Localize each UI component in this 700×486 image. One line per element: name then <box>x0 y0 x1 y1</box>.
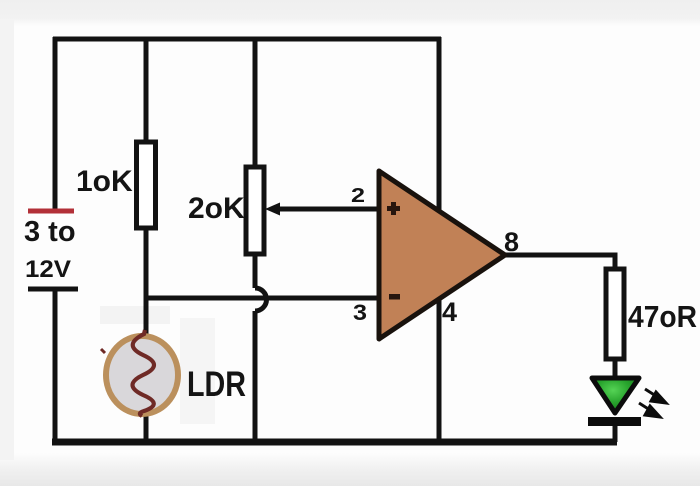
svg-text:2oK: 2oK <box>188 192 245 225</box>
svg-text:12V: 12V <box>25 256 71 283</box>
svg-text:3: 3 <box>353 300 367 325</box>
svg-text:47oR: 47oR <box>628 299 697 334</box>
svg-text:3 to: 3 to <box>24 216 76 248</box>
svg-text:4: 4 <box>442 297 457 327</box>
svg-text:8: 8 <box>504 227 519 257</box>
svg-text:1oK: 1oK <box>76 165 133 198</box>
svg-text:LDR: LDR <box>187 365 246 404</box>
svg-text:2: 2 <box>351 185 365 207</box>
